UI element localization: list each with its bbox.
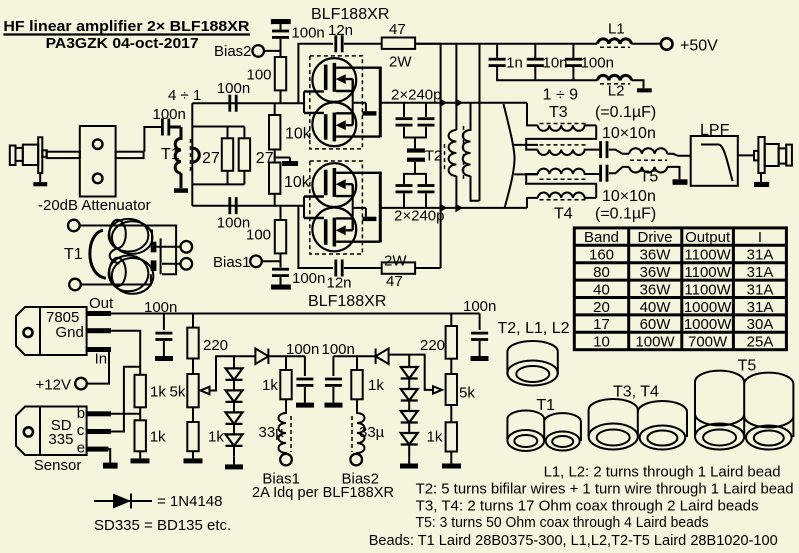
capacitor 100n gate2 <box>228 197 237 214</box>
diode chain 1 <box>233 356 235 456</box>
svg-text:2×240p: 2×240p <box>391 87 441 104</box>
ground output BNC <box>760 173 762 182</box>
terminal T1 c <box>181 241 193 253</box>
fan stub row2 <box>514 144 538 146</box>
capacitor 100n bias2 out <box>332 356 334 376</box>
T3 coil row1 <box>538 125 597 130</box>
T1 winding end blobs <box>151 242 157 253</box>
L2 core dash <box>600 83 630 85</box>
wire bottom corner <box>527 198 538 208</box>
+50V rail <box>415 43 597 45</box>
row4 core dash <box>540 199 588 201</box>
T1 wire top <box>79 226 176 275</box>
T4 coil row4 <box>538 193 597 198</box>
svg-text:Gnd: Gnd <box>56 324 84 341</box>
resistor 10k upper <box>274 103 276 115</box>
svg-text:220: 220 <box>420 337 445 354</box>
svg-text:b: b <box>77 405 85 422</box>
svg-text:1100W: 1100W <box>684 264 731 281</box>
transformer T1 schematic primary <box>170 127 181 188</box>
output BNC connector J2 <box>754 137 792 173</box>
transistor Q1 <box>304 58 380 102</box>
svg-text:10×10n: 10×10n <box>602 188 656 205</box>
transistor Q3 <box>304 163 380 207</box>
svg-text:60W: 60W <box>640 316 672 333</box>
svg-text:+12V: +12V <box>36 377 71 394</box>
terminal T1 b <box>69 279 81 291</box>
resistor 220 right <box>450 314 452 327</box>
input BNC connector J1 <box>10 137 47 173</box>
supply riser A <box>455 44 457 130</box>
resistor 220 left <box>192 314 194 328</box>
inductor 33u right <box>357 399 365 454</box>
7805 lead Out <box>87 311 111 316</box>
svg-text:T1: T1 <box>161 146 180 163</box>
drain bus lower <box>379 172 382 243</box>
svg-text:In: In <box>95 351 108 368</box>
legend diode 1N4148 <box>94 494 152 509</box>
wire T5 to LPF <box>667 154 691 156</box>
+5V rail from Out <box>111 313 480 315</box>
potentiometer 5k left <box>187 374 198 407</box>
terminal +12V <box>75 378 87 390</box>
svg-text:100W: 100W <box>635 334 675 351</box>
ground 100n rail end <box>471 356 489 361</box>
bead T2,L1,L2 <box>507 341 557 385</box>
thick wire attenuator to T1 riser <box>116 152 144 158</box>
T1 wires to terminals <box>156 247 180 264</box>
capacitor 1n <box>489 58 506 67</box>
svg-text:27: 27 <box>202 150 220 167</box>
gate line 1 (upper) <box>222 102 304 104</box>
svg-text:10×10n: 10×10n <box>602 125 656 142</box>
row1 core dash <box>540 123 588 125</box>
wire riser to 100n <box>144 127 161 152</box>
svg-text:33µ: 33µ <box>259 424 285 441</box>
svg-text:47: 47 <box>389 21 406 38</box>
diode D5 series left <box>255 349 286 365</box>
row3 core dash <box>540 178 588 180</box>
svg-text:36W: 36W <box>640 247 672 264</box>
ground 100n bias1 out <box>296 403 314 408</box>
ground 100n rail <box>155 356 173 361</box>
wiper arrow right <box>433 386 442 393</box>
wire 220 to 5k right <box>450 359 452 374</box>
wire to ground <box>192 451 194 458</box>
svg-text:Bias1: Bias1 <box>213 254 251 271</box>
svg-text:-20dB Attenuator: -20dB Attenuator <box>38 197 151 214</box>
svg-text:1n: 1n <box>506 55 523 72</box>
wire to ground right chain <box>450 452 452 464</box>
svg-text:(=0.1µF): (=0.1µF) <box>595 206 656 223</box>
svg-text:HF linear amplifier 2× BLF188X: HF linear amplifier 2× BLF188XR <box>3 19 250 35</box>
svg-text:4 ÷ 1: 4 ÷ 1 <box>168 87 201 104</box>
ground under T1 <box>174 188 188 193</box>
svg-text:T3, T4: T3, T4 <box>613 384 659 401</box>
svg-text:1k: 1k <box>150 384 166 401</box>
svg-text:100n: 100n <box>322 341 355 358</box>
resistor 1k right chain <box>446 422 457 451</box>
ground 100n bias2 out <box>325 403 343 408</box>
ground 5k chain <box>184 458 203 463</box>
svg-text:700W: 700W <box>688 334 728 351</box>
svg-text:1100W: 1100W <box>684 247 731 264</box>
svg-text:= 1N4148: = 1N4148 <box>157 493 222 510</box>
source join upper to ground <box>353 91 366 113</box>
svg-text:100n: 100n <box>463 298 496 315</box>
capacitor 12n lower <box>334 260 343 277</box>
junction bias1 node <box>286 355 305 357</box>
svg-text:PA3GZK 04-oct-2017: PA3GZK 04-oct-2017 <box>46 36 199 52</box>
resistor 1k bias2 <box>356 356 358 370</box>
ground L2 <box>637 88 652 92</box>
svg-text:100n: 100n <box>292 270 325 287</box>
svg-text:31A: 31A <box>747 281 774 298</box>
resistor 1k (lower left) <box>135 420 146 451</box>
beads T5 <box>695 371 793 450</box>
wire secondary top to gate line 1 <box>192 102 222 104</box>
ground caps lower <box>407 158 425 162</box>
T4 coil row3 <box>538 169 600 174</box>
wire L2 to ground <box>631 80 643 88</box>
beads T1 pair <box>507 410 581 451</box>
wire wiper to diode <box>210 356 256 390</box>
7805 lead In <box>87 347 111 352</box>
svg-text:30A: 30A <box>747 316 774 333</box>
svg-text:L1, L2: 2 turns through 1 Lair: L1, L2: 2 turns through 1 Laird bead <box>544 464 781 481</box>
potentiometer 5k right <box>446 374 457 405</box>
T5 coil top <box>629 148 667 154</box>
svg-text:10k: 10k <box>284 174 311 191</box>
capacitor 240p C <box>396 184 413 193</box>
SD335 lead c <box>87 429 111 434</box>
svg-text:5k: 5k <box>459 385 475 402</box>
svg-text:1000W: 1000W <box>684 299 732 316</box>
capacitor 12n upper <box>334 35 343 52</box>
svg-text:L2: L2 <box>608 83 625 100</box>
svg-text:27: 27 <box>256 150 274 167</box>
svg-text:100n: 100n <box>291 25 324 42</box>
svg-text:T5: T5 <box>640 169 659 186</box>
capacitor 100n gate1 <box>228 95 237 112</box>
ground T5 <box>673 179 688 185</box>
T2 secondary fan curve <box>504 104 515 208</box>
svg-text:20: 20 <box>593 299 610 316</box>
wires 27 pair bottom rail <box>192 171 244 185</box>
T1 winding verticals <box>152 230 161 275</box>
svg-text:10n: 10n <box>543 55 568 72</box>
svg-text:T4: T4 <box>554 206 573 223</box>
svg-text:Bias2: Bias2 <box>342 471 380 488</box>
decoupling bottom rail <box>497 44 597 81</box>
svg-text:36W: 36W <box>640 281 672 298</box>
LPF curve <box>701 145 733 182</box>
T5 core dash <box>630 159 667 161</box>
attenuator box <box>80 126 116 197</box>
T2 core dashes <box>445 126 464 180</box>
svg-text:47: 47 <box>386 273 403 290</box>
svg-text:100n: 100n <box>217 80 250 97</box>
wire e to ground <box>108 449 110 463</box>
gate bus upper <box>303 91 305 113</box>
transistor Q2 <box>304 102 380 146</box>
LPF box <box>691 136 738 186</box>
wire 12n to 47 lower <box>344 267 382 269</box>
wire 5k to 1k right <box>192 407 194 422</box>
capacitor 10n <box>527 58 544 67</box>
svg-text:Bias2: Bias2 <box>214 43 252 60</box>
fan stub row3 <box>514 173 538 175</box>
svg-text:1 ÷ 9: 1 ÷ 9 <box>543 87 579 104</box>
gate line 2 (lower) <box>192 205 304 207</box>
T1 core dashes <box>190 139 192 172</box>
ground diode chain 2 <box>400 464 418 469</box>
wire gate line2 to resistor <box>280 206 282 220</box>
wire rail end cap <box>479 314 481 331</box>
capacitor 100n supply <box>565 58 582 67</box>
resistor 1k (upper left) <box>135 375 146 408</box>
svg-text:2×240p: 2×240p <box>394 208 444 225</box>
svg-text:T3, T4: 2 turns 17 Ohm coax th: T3, T4: 2 turns 17 Ohm coax through 2 La… <box>416 498 759 515</box>
wire b lead <box>111 413 140 415</box>
capacitor 240p B <box>418 117 435 126</box>
T1 secondary winding <box>192 148 199 162</box>
wire wiper right <box>389 355 433 390</box>
terminal T1 d <box>181 258 193 270</box>
capacitor 10x10n bottom <box>599 165 608 182</box>
svg-text:T1: T1 <box>536 397 555 414</box>
svg-text:100: 100 <box>246 227 271 244</box>
ground 1k chain <box>131 458 150 463</box>
svg-text:100n: 100n <box>144 299 177 316</box>
package U2 dashed box <box>310 161 363 254</box>
svg-text:Band: Band <box>584 229 619 246</box>
wire 220 to 5k <box>192 359 194 375</box>
svg-text:c: c <box>77 422 85 439</box>
svg-text:LPF: LPF <box>700 122 730 139</box>
svg-text:40: 40 <box>593 281 610 298</box>
SD335 lead b <box>87 411 111 416</box>
wires 27 pair top rail <box>192 127 244 139</box>
title underline <box>3 33 250 35</box>
wire Gnd lead to 1k chain <box>111 331 140 375</box>
terminal Bias1 <box>250 255 262 267</box>
ground below 100n bias1 <box>280 277 282 284</box>
inductor L2 <box>598 75 632 80</box>
capacitor 100n bias1 out <box>304 356 306 376</box>
junction upper drain <box>440 98 448 107</box>
capacitor 100n input <box>161 119 170 136</box>
T4 loop-back wire <box>526 174 596 198</box>
33u left core dash <box>290 416 292 452</box>
svg-text:1k: 1k <box>262 377 278 394</box>
svg-text:T2: 5 turns bifilar wires + 1: T2: 5 turns bifilar wires + 1 turn wire … <box>416 481 794 498</box>
wire cap to T5 top <box>609 150 629 154</box>
33u right core dash <box>351 416 353 452</box>
svg-text:220: 220 <box>203 337 228 354</box>
svg-text:T5: T5 <box>738 358 757 375</box>
svg-text:80: 80 <box>593 264 610 281</box>
ground source lower <box>362 217 376 221</box>
inductor 33u left <box>279 399 287 454</box>
svg-text:Drive: Drive <box>637 229 672 246</box>
svg-text:100n: 100n <box>286 341 319 358</box>
svg-text:+50V: +50V <box>680 38 718 55</box>
ground caps upper <box>407 148 425 152</box>
L1 core dash <box>600 46 630 48</box>
gate bus lower <box>303 197 305 219</box>
svg-text:5k: 5k <box>170 384 186 401</box>
svg-text:T2: T2 <box>425 148 443 165</box>
svg-text:1k: 1k <box>368 377 384 394</box>
svg-text:31A: 31A <box>747 264 774 281</box>
inductor L1 <box>598 39 632 44</box>
T1 core tube lower <box>109 256 149 292</box>
capacitor 100n on 5V rail <box>163 314 165 331</box>
output line lower <box>380 207 527 209</box>
svg-text:100: 100 <box>247 67 272 84</box>
supply riser B <box>479 44 481 201</box>
wire 47 to drain riser <box>415 43 441 45</box>
ground 10k mid upper <box>289 158 291 162</box>
svg-text:31A: 31A <box>747 247 774 264</box>
svg-text:L1: L1 <box>608 21 625 38</box>
svg-text:1k: 1k <box>208 429 224 446</box>
junction riser A upper line <box>455 98 463 107</box>
svg-text:I: I <box>758 229 762 246</box>
wire gate1 to feedback <box>298 44 333 103</box>
svg-text:10: 10 <box>593 334 610 351</box>
diode chain 2 <box>408 355 410 455</box>
output line upper <box>380 102 527 104</box>
svg-text:T5: 3 turns 50 Ohm coax throug: T5: 3 turns 50 Ohm coax through 4 Laird … <box>416 514 709 531</box>
capacitor 100n bias1 <box>272 268 289 277</box>
svg-text:Beads: T1 Laird 28B0375-300, L: Beads: T1 Laird 28B0375-300, L1,L2,T2-T5… <box>369 532 778 549</box>
svg-text:33µ: 33µ <box>359 424 385 441</box>
svg-text:25A: 25A <box>747 334 774 351</box>
ground diode chain 1 <box>225 464 243 469</box>
resistor 1k bias1 <box>285 356 287 370</box>
T1 wire bottom <box>81 274 151 284</box>
T5 coil bottom <box>629 167 667 173</box>
ground source upper <box>362 111 376 115</box>
beads T3,T4 <box>589 399 687 450</box>
transistor Q4 <box>304 208 380 252</box>
ground right chain <box>442 464 461 469</box>
svg-text:Sensor: Sensor <box>34 457 82 474</box>
T1 winding inner arc <box>110 248 120 264</box>
terminal T1 a <box>68 220 80 232</box>
wire bias1 junction <box>262 253 281 267</box>
svg-text:10k: 10k <box>285 126 312 143</box>
wire cap to T5 bottom <box>609 167 629 173</box>
regulator 7805 body <box>16 307 87 355</box>
diode D6 series right <box>333 349 388 365</box>
capacitor 240p A <box>396 117 413 126</box>
svg-text:100n: 100n <box>153 106 186 123</box>
resistor 27 A <box>222 138 233 171</box>
resistor 47 lower <box>382 262 415 273</box>
svg-text:2W: 2W <box>384 253 407 270</box>
resistor 47 upper <box>382 38 415 49</box>
svg-text:1k: 1k <box>427 429 443 446</box>
svg-text:1k: 1k <box>150 429 166 446</box>
svg-text:BLF188XR: BLF188XR <box>308 293 386 310</box>
svg-text:17: 17 <box>593 316 610 333</box>
wire 47 lower to riser <box>415 267 441 269</box>
T2 winding 2 <box>463 103 480 201</box>
svg-text:(=0.1µF): (=0.1µF) <box>595 104 656 121</box>
wire L1 to terminal <box>631 43 660 45</box>
terminal Bias1 out <box>280 454 292 466</box>
wiper arrow left <box>201 387 210 394</box>
svg-text:T3: T3 <box>549 104 568 121</box>
wire T5 shield to ground <box>667 167 679 179</box>
resistor 100 lower <box>275 220 286 253</box>
terminal Bias2 out <box>350 454 362 466</box>
drain bus upper <box>379 67 382 138</box>
svg-text:12n: 12n <box>327 275 352 292</box>
svg-text:12n: 12n <box>328 22 353 39</box>
transistor SD335 body <box>16 407 87 456</box>
ground e <box>103 463 118 469</box>
capacitor 100n rail end <box>471 332 488 341</box>
svg-text:e: e <box>77 440 85 457</box>
thick wire BNC to attenuator <box>47 152 80 158</box>
wire top corner <box>527 103 538 126</box>
node bus T1 secondary <box>191 103 193 206</box>
SD335 lead e <box>87 447 109 452</box>
resistor 10k lower <box>269 163 280 194</box>
resistor 100 upper <box>275 57 286 90</box>
terminal Bias2 <box>252 45 264 57</box>
resistor 1k (below 5k left) <box>187 422 198 451</box>
svg-text:1100W: 1100W <box>684 281 731 298</box>
wire bias2 to resistor <box>264 39 281 57</box>
capacitor 100n bias2 <box>272 30 289 39</box>
svg-text:Output: Output <box>685 229 731 246</box>
svg-text:T2, L1, L2: T2, L1, L2 <box>498 320 570 337</box>
svg-text:31A: 31A <box>747 299 774 316</box>
T1 core tube upper <box>109 219 149 252</box>
wire 100 to gate line1 <box>280 90 282 103</box>
source join lower to ground <box>353 196 366 218</box>
junction lower line riser A <box>455 203 463 212</box>
terminal +50V <box>661 38 673 50</box>
feedback riser <box>440 44 442 268</box>
resistor 27 B <box>239 138 250 171</box>
svg-text:1000W: 1000W <box>684 316 732 333</box>
7805 lead Gnd <box>87 328 111 333</box>
svg-text:Out: Out <box>89 295 114 312</box>
wire 1k to ground <box>139 451 141 458</box>
wire 100n to T1 <box>170 126 180 128</box>
svg-text:335: 335 <box>48 431 73 448</box>
ground top of 100n bias2 <box>271 19 291 24</box>
wire c lead <box>111 367 140 432</box>
svg-text:40W: 40W <box>640 299 672 316</box>
wire In to +12V <box>88 350 110 384</box>
svg-text:2W: 2W <box>389 54 412 71</box>
svg-text:36W: 36W <box>640 264 672 281</box>
package U1 dashed box <box>310 56 363 149</box>
svg-text:BLF188XR: BLF188XR <box>311 6 389 23</box>
wires caps upper <box>404 103 426 149</box>
capacitor 240p D <box>418 184 435 193</box>
wire 12n to 47 <box>344 43 382 45</box>
svg-text:SD335 = BD135 etc.: SD335 = BD135 etc. <box>94 517 231 534</box>
wires caps lower <box>404 162 426 208</box>
